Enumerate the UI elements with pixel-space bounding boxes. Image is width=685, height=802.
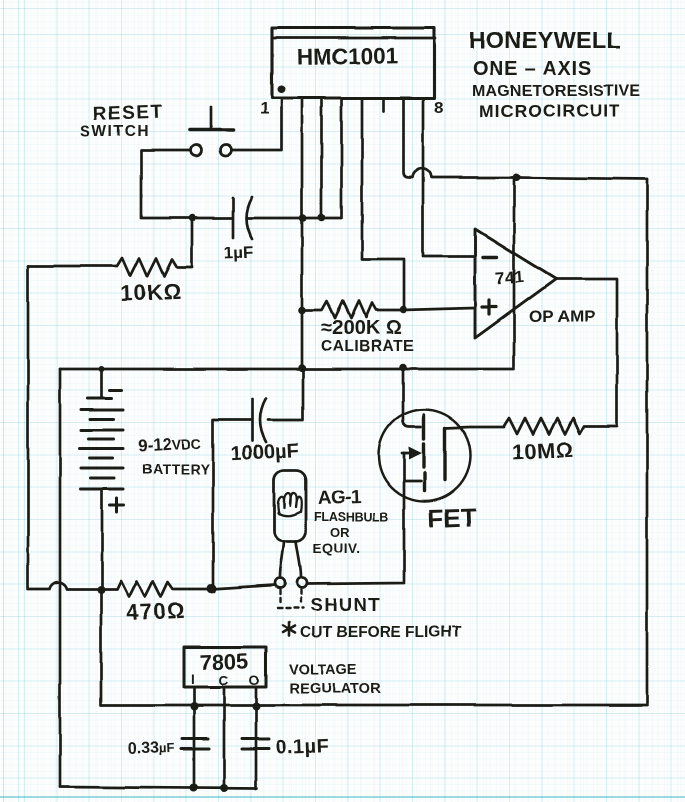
IC U1 top inner line: [272, 37, 435, 40]
FET channel dashes: [422, 415, 426, 491]
svg-text:10KΩ: 10KΩ: [119, 279, 182, 306]
pin 8 wire to op-amp inverting input: [423, 98, 474, 256]
flashbulb filament squiggle: [278, 493, 302, 516]
bottom regulator ground wire: [60, 787, 257, 789]
regulator supply wire y705: [101, 590, 647, 705]
rail vertical x60 down to bottom: [59, 369, 62, 787]
svg-text:1000µF: 1000µF: [230, 440, 299, 466]
reset switch contact left: [191, 145, 202, 156]
junction C on ground wire: [220, 784, 228, 792]
junction small battery top T: [99, 366, 105, 372]
svg-text:HMC1001: HMC1001: [297, 43, 399, 70]
junction 200K right plus-input: [400, 306, 408, 314]
strong grid line bottom: [0, 796, 685, 798]
op-amp U2 triangle: [475, 229, 556, 338]
junction node B1: [188, 214, 196, 222]
svg-text:REGULATOR: REGULATOR: [289, 681, 382, 697]
FET body arrow line: [402, 452, 411, 455]
wire node B left segment to switch: [141, 150, 232, 218]
capacitor C2 curved plate: [260, 398, 266, 442]
resistor R2 200K calibrate: [302, 301, 474, 318]
resistor R3 10M: [504, 418, 617, 434]
capacitor C1 1uF left plate: [232, 198, 235, 238]
op-amp minus sign: [483, 255, 497, 258]
capacitor C3 0.33uF plates: [181, 739, 209, 749]
pin 6 stub: [383, 98, 386, 111]
capacitor C2 1000uF left wire: [213, 420, 251, 588]
svg-text:SWITCH: SWITCH: [80, 123, 150, 140]
svg-text:470Ω: 470Ω: [125, 598, 186, 625]
flashbulb right terminal: [297, 578, 307, 588]
svg-text:7805: 7805: [199, 648, 249, 675]
svg-text:0.1µF: 0.1µF: [275, 735, 330, 759]
wire x514 from top wire down across opamp: [513, 177, 516, 367]
svg-text:FLASHBULB: FLASHBULB: [314, 510, 389, 524]
junction battery plus on bottom wire: [97, 586, 105, 594]
bottom-left wire with hop over vertical: [28, 581, 275, 597]
junction I on supply wire: [190, 702, 198, 710]
battery BT1 top lead: [101, 369, 104, 398]
svg-text:MICROCIRCUIT: MICROCIRCUIT: [479, 101, 620, 121]
svg-text:CUT BEFORE FLIGHT: CUT BEFORE FLIGHT: [300, 624, 462, 641]
pin 5 wire to plus-input node: [362, 98, 404, 311]
junction top right: [513, 173, 521, 181]
regulator leg C: [223, 687, 226, 788]
junction node B3: [318, 214, 326, 222]
left bus wire vertical: [27, 266, 30, 588]
svg-text:741: 741: [495, 267, 525, 288]
pin 1 wire to reset switch: [232, 98, 282, 150]
junction 200K left: [298, 306, 306, 314]
svg-text:AG-1: AG-1: [317, 486, 362, 509]
capacitor C4 0.1uF plates: [242, 739, 269, 749]
flashbulb left terminal: [275, 578, 285, 588]
strong grid line left: [3, 0, 4, 802]
right bus vertical: [646, 179, 649, 703]
battery BT1 bottom lead: [101, 489, 104, 588]
svg-text:SHUNT: SHUNT: [310, 594, 381, 615]
feedback wire right: [556, 279, 617, 425]
battery BT1 plates: [80, 398, 123, 489]
regulator leg O: [255, 687, 258, 789]
svg-text:1: 1: [260, 99, 269, 118]
flashbulb DS1 envelope: [274, 470, 306, 541]
svg-text:MAGNETORESISTIVE: MAGNETORESISTIVE: [472, 83, 640, 100]
IC U1 HMC1001 body: [272, 28, 434, 98]
shunt dashed wire: [278, 590, 303, 608]
regulator leg I: [193, 687, 196, 788]
junction node B2: [299, 214, 307, 222]
junction I on ground wire: [190, 784, 198, 792]
battery minus sign: [110, 389, 122, 392]
transistor Q1 FET circle: [379, 410, 471, 502]
capacitor C2 straight plate: [251, 399, 254, 441]
svg-text:CALIBRATE: CALIBRATE: [321, 338, 414, 355]
FET drain bar: [443, 428, 446, 480]
reset switch plunger stem: [210, 107, 213, 128]
asterisk star: [283, 622, 295, 636]
svg-text:9-12VDC: 9-12VDC: [137, 434, 202, 456]
flashbulb right leg: [296, 541, 301, 577]
ground-rail wire y368: [60, 368, 514, 371]
junction fet-gate/rail: [399, 364, 407, 372]
FET source stub: [404, 480, 421, 483]
svg-text:1µF: 1µF: [223, 243, 253, 263]
svg-text:FET: FET: [427, 502, 477, 534]
reset switch plunger bar: [190, 128, 233, 132]
battery plus sign: [110, 498, 124, 512]
junction pin2/rail: [298, 364, 306, 372]
svg-text:RESET: RESET: [92, 102, 164, 125]
svg-text:HONEYWELL: HONEYWELL: [469, 27, 621, 53]
op-amp plus sign: [482, 300, 496, 314]
FET body arrowhead: [409, 447, 422, 460]
capacitor C1 1uF curved plate: [246, 197, 252, 239]
svg-text:VOLTAGE: VOLTAGE: [289, 662, 357, 678]
svg-text:10MΩ: 10MΩ: [511, 437, 575, 465]
reset switch contact right: [221, 145, 232, 156]
svg-text:EQUIV.: EQUIV.: [313, 541, 361, 556]
FET source line down to bulb wire: [307, 453, 404, 584]
resistor R1 10K with wire from left bus: [28, 218, 192, 276]
FET drain lead out to resistor: [445, 427, 504, 428]
svg-text:0.33µF: 0.33µF: [128, 739, 175, 758]
pin 4 wire and node-B horizontal wire: [248, 98, 342, 218]
svg-text:≈200K Ω: ≈200K Ω: [321, 317, 401, 339]
junction cap/bulb node on bottom wire: [207, 584, 217, 594]
pin 7 wire with hop to top-right bus: [404, 98, 648, 179]
regulator U3 7805 box: [184, 647, 266, 687]
svg-text:O: O: [249, 673, 260, 688]
pin 2 wire long vertical: [301, 98, 304, 368]
svg-text:ONE – AXIS: ONE – AXIS: [473, 58, 593, 80]
svg-text:8: 8: [434, 98, 443, 117]
svg-text:OR: OR: [330, 525, 350, 540]
svg-text:I: I: [191, 672, 195, 687]
flashbulb left leg: [280, 541, 284, 576]
svg-text:BATTERY: BATTERY: [142, 461, 210, 477]
junction O on supply wire: [252, 702, 260, 710]
capacitor C2 right wire: [268, 369, 303, 420]
IC U1 pin-1 dot: [278, 85, 286, 93]
FET gate lead: [403, 369, 421, 427]
pin 3 wire: [320, 98, 323, 217]
svg-text:OP AMP: OP AMP: [529, 307, 595, 326]
